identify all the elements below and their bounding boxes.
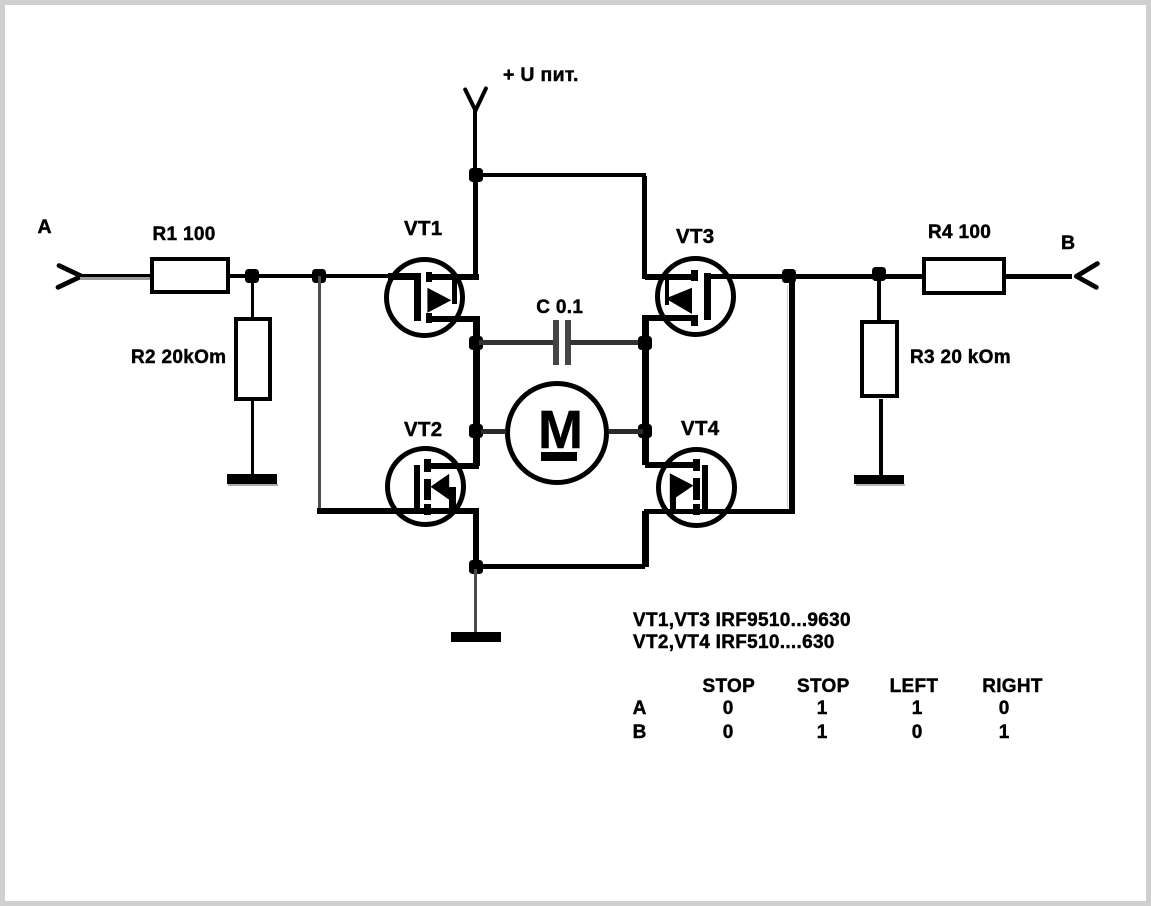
- transistor VT4: [0, 0, 1, 1]
- wire motor left: [481, 429, 506, 434]
- node motor left: [469, 424, 483, 438]
- label C 0.1: [536, 298, 583, 317]
- wire right mid rail: [642, 315, 649, 465]
- wire motor right: [609, 429, 643, 434]
- label VT1: [404, 219, 443, 240]
- node capacitor left: [469, 336, 483, 350]
- resistor R1: [150, 257, 231, 294]
- node R3 junction: [872, 267, 886, 281]
- node bottom junction: [469, 560, 483, 574]
- wire junction to VT2 gate vertical: [318, 276, 321, 510]
- label VT2: [404, 420, 443, 441]
- label R1 100: [153, 225, 216, 244]
- wire R3 bottom: [879, 399, 884, 476]
- resistor R3: [860, 320, 899, 399]
- node junction R2: [245, 269, 259, 283]
- wire VT4 gate and source horizontal: [644, 509, 795, 515]
- wire R2 bottom: [251, 401, 255, 474]
- wire R2 top: [251, 278, 255, 317]
- terminal A label: [38, 218, 52, 238]
- truth table row A: [633, 699, 647, 718]
- label R4 100: [928, 223, 991, 242]
- node capacitor right: [638, 336, 652, 350]
- wire A to R1: [80, 274, 150, 277]
- wire bottom rail: [473, 564, 645, 569]
- wire left rail upper: [473, 176, 478, 279]
- label VT4: [681, 419, 720, 440]
- terminal A fork: [50, 258, 90, 294]
- wire R1 to VT1: [230, 274, 390, 278]
- node motor right: [638, 424, 652, 438]
- capacitor C 0.1 plates: [553, 320, 559, 365]
- transistor VT2: [0, 0, 1, 1]
- wire VT2 gate and source horizontal: [317, 508, 479, 514]
- note transistor types: [633, 611, 851, 630]
- transistor VT1: [0, 0, 1, 1]
- wire capacitor right: [570, 340, 642, 345]
- label R3 20 kOm: [910, 348, 1011, 367]
- artifact faint line: [787, 285, 789, 508]
- label VT3: [676, 227, 715, 248]
- wire R4 to B: [1006, 274, 1072, 280]
- power terminal +U fork: [455, 78, 500, 118]
- node VT4 gate branch: [782, 269, 796, 283]
- motor M: [0, 0, 1, 1]
- resistor R2: [234, 317, 272, 402]
- node supply junction: [469, 168, 483, 182]
- wire VT1 gate lead: [388, 273, 421, 280]
- label +U пит.: [503, 66, 579, 86]
- wire R3 top: [877, 279, 882, 320]
- wire VT4 gate vertical: [789, 276, 795, 512]
- wire VT3 gate to R4: [711, 274, 922, 280]
- ground R2: [227, 474, 277, 483]
- wire VT4 source down: [642, 511, 649, 567]
- truth table header: [703, 677, 756, 696]
- ground bottom: [451, 632, 501, 642]
- wire supply vertical: [473, 108, 477, 176]
- resistor R4: [922, 257, 1006, 295]
- wire top rail horizontal: [474, 173, 646, 177]
- transistor VT3: [0, 0, 1, 1]
- label R2 20kOm: [131, 348, 226, 367]
- label B: [1061, 234, 1075, 254]
- node junction VT2 branch: [312, 269, 326, 283]
- wire capacitor left: [479, 340, 553, 345]
- truth table row B: [633, 723, 647, 742]
- ground R3: [854, 475, 904, 484]
- wire ground drop: [474, 569, 477, 632]
- terminal B fork: [1068, 255, 1108, 295]
- wire VT2 source down: [473, 511, 480, 567]
- wire right rail upper: [642, 176, 648, 279]
- wire left mid rail: [473, 316, 480, 466]
